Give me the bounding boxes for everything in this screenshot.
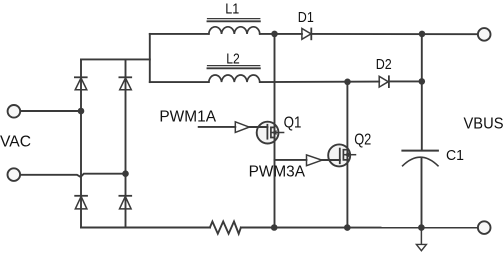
svg-text:Q1: Q1 — [284, 115, 302, 132]
wire: Q2 drain-source vertical — [346, 82, 348, 228]
buffer: PWM1A gate driver — [235, 122, 249, 133]
transistor Q2 source arrow — [344, 152, 356, 157]
wire: bridge top rail — [81, 58, 150, 60]
terminal: VBUS + — [478, 28, 491, 41]
wire: bridge right leg — [125, 59, 127, 227]
inductor L2 — [208, 66, 260, 83]
inductor L1 — [208, 19, 260, 34]
diode: bridge top-left — [75, 77, 87, 90]
transistor Q1 gate bar — [266, 125, 268, 139]
transistor Q1 source arrow — [271, 130, 283, 135]
wire: D2 to VBUS vertical — [389, 80, 422, 82]
transistor Q2 channel bracket — [343, 150, 347, 160]
transistor Q2 body — [328, 144, 350, 166]
svg-text:L2: L2 — [226, 51, 240, 68]
wire: VAC + lead — [20, 110, 81, 112]
wire: L1 input — [150, 33, 209, 35]
junction: C1/ground to return rail — [418, 224, 425, 231]
svg-text:D1: D1 — [298, 9, 314, 26]
svg-text:D2: D2 — [376, 56, 392, 73]
diode D1 — [302, 29, 311, 40]
wire: PWM3A tap — [275, 159, 307, 161]
diode: bridge top-right — [119, 77, 131, 90]
wire: VBUS vertical (D1 node to C1) — [421, 34, 423, 150]
ground — [416, 228, 426, 251]
terminal: VBUS - — [478, 221, 491, 234]
wire: PWM1A lead — [199, 126, 236, 128]
svg-text:VBUS: VBUS — [464, 116, 504, 133]
junction: Q1 source to return rail — [271, 224, 278, 231]
wire: L2 to Q2/D2 node — [260, 81, 379, 84]
wire: return rail right — [241, 227, 478, 229]
junction: Q2 source to return rail — [344, 224, 351, 231]
capacitor C1 — [402, 151, 438, 166]
svg-text:PWM3A: PWM3A — [249, 164, 306, 181]
svg-text:PWM1A: PWM1A — [159, 109, 216, 126]
transistor Q2 gate bar — [339, 149, 341, 164]
buffer: PWM3A gate driver — [307, 155, 322, 166]
junction: VAC + to bridge — [78, 108, 85, 115]
wire: Q1 drain-source vertical — [274, 34, 276, 228]
transistor Q2 gate lead — [322, 159, 340, 161]
transistor Q1 channel bracket — [271, 127, 275, 137]
diode D2 — [379, 76, 389, 87]
junction: L1/D1/Q1 drain node — [271, 31, 278, 38]
diode: bridge bottom-left — [75, 196, 87, 209]
wire: VAC - lead with hop over bridge left leg — [20, 174, 125, 177]
wire: D1 to VBUS — [311, 33, 478, 35]
junction: D2/VBUS vertical node — [419, 78, 426, 85]
terminal: VAC - — [8, 168, 21, 181]
svg-text:C1: C1 — [446, 147, 464, 164]
diode: bridge bottom-right — [119, 196, 131, 209]
wire: L2 input — [150, 81, 209, 83]
transistor Q1 gate lead — [249, 126, 267, 128]
transistor Q1 body — [257, 122, 279, 144]
wire: C1 to ground rail — [421, 159, 423, 228]
junction: VAC - to bridge — [122, 170, 129, 177]
svg-text:VAC: VAC — [0, 134, 31, 151]
wire: bridge left leg — [80, 59, 82, 227]
junction: L2/Q2 drain node — [344, 79, 351, 86]
junction: D1/VBUS top node — [419, 31, 426, 38]
svg-text:L1: L1 — [225, 1, 239, 18]
terminal: VAC + — [8, 105, 21, 118]
wire: rectified feed vertical — [149, 34, 151, 82]
svg-text:Q2: Q2 — [354, 132, 371, 149]
resistor (return shunt) — [210, 222, 241, 234]
wire: L1 to D1/Q1 node — [260, 33, 302, 35]
wire: return rail left — [81, 227, 210, 229]
